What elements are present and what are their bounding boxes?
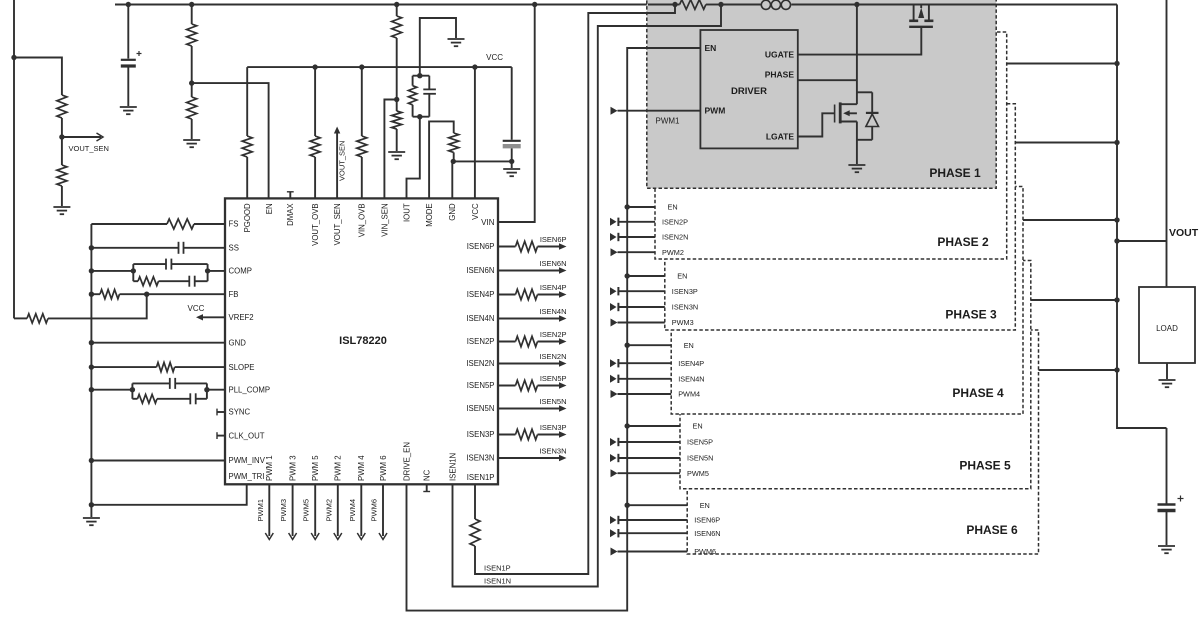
wire feedback resistor to left line [14, 317, 27, 319]
pin labels left side [229, 220, 271, 481]
wire EN tap phase 5 [625, 423, 630, 428]
svg-text:EN: EN [684, 341, 694, 350]
node PWM_INV on rail [89, 458, 94, 463]
wire PLL_COMP to network [91, 389, 132, 391]
node ISEN1P on bus [672, 2, 677, 7]
node phase4 output [1114, 217, 1119, 222]
svg-text:PWM3: PWM3 [279, 499, 288, 522]
wire EN bus DRIVE_EN [407, 48, 701, 611]
wire PWM2 output arrow [337, 484, 339, 536]
wire ISEN4P sense output [498, 294, 516, 296]
svg-text:PWM 5: PWM 5 [311, 455, 320, 481]
capacitor PLL top branch [131, 383, 133, 398]
wire PGOOD pull-up [246, 157, 248, 198]
ground phase1 power [848, 164, 865, 166]
node PWM_TRI on rail [89, 502, 94, 507]
svg-text:ISEN6P: ISEN6P [540, 235, 567, 244]
wire VOUT_SEN arrow [62, 136, 101, 138]
node IOUT RC top [417, 73, 422, 78]
wire VIN_OVB pull-up top [361, 67, 363, 136]
resistor EN divider top [187, 24, 197, 46]
node IOUT RC bottom [417, 114, 422, 119]
resistor VIN divider top [392, 16, 402, 38]
wire bus to VIN divider [396, 5, 398, 17]
wire EN tap phase 6 [625, 503, 630, 508]
resistor ISEN2P sense [516, 336, 538, 346]
node junction on feedback line [11, 55, 16, 60]
svg-text:SYNC: SYNC [229, 408, 251, 417]
node VCC pin on rail [472, 64, 477, 69]
svg-text:EN: EN [693, 422, 703, 431]
svg-text:PWM3: PWM3 [672, 318, 694, 327]
svg-text:COMP: COMP [229, 267, 252, 276]
pin labels top side [243, 203, 480, 246]
svg-text:DRIVER: DRIVER [731, 86, 767, 97]
wire feedback left vertical [13, 0, 15, 318]
capacitor SS [178, 242, 180, 254]
svg-text:PWM6: PWM6 [370, 499, 379, 522]
wire VOUT_OVB pull-up top [314, 67, 316, 136]
svg-text:VOUT_SEN: VOUT_SEN [333, 203, 342, 245]
wire EN to IC pin [192, 83, 269, 198]
svg-text:LOAD: LOAD [1156, 324, 1178, 333]
block PHASE 1 driver stage [647, 0, 996, 188]
diode D1 body diode [857, 92, 879, 140]
wire Q2 source to ground [856, 122, 858, 165]
resistor ISEN4P sense [516, 289, 538, 299]
svg-text:ISEN6N: ISEN6N [694, 529, 720, 538]
svg-text:EN: EN [265, 203, 274, 214]
wire MODE resistor bottom [453, 152, 455, 161]
wire FS pin [91, 223, 167, 225]
svg-text:CLK_OUT: CLK_OUT [229, 431, 265, 440]
wire ISEN2N sense output [498, 363, 560, 365]
wire ISEN5P sense output [498, 385, 516, 387]
svg-text:ISEN6N: ISEN6N [539, 259, 566, 268]
wire IOUT pin to RC network [407, 117, 420, 199]
resistor PGOOD pull-up [242, 136, 252, 157]
wire PWM_TRI pin [91, 484, 246, 505]
svg-text:PWM 1: PWM 1 [265, 455, 274, 481]
node EN divider tap on bus [189, 2, 194, 7]
ground left rail [83, 517, 100, 519]
wire PWM5 input [611, 469, 618, 477]
svg-text:PHASE 4: PHASE 4 [952, 386, 1004, 400]
svg-text:ISEN3N: ISEN3N [466, 454, 494, 463]
svg-text:PWM4: PWM4 [678, 390, 700, 399]
svg-text:PHASE 5: PHASE 5 [959, 459, 1011, 473]
svg-text:LGATE: LGATE [766, 132, 795, 142]
label PHASE 5 pins [687, 422, 713, 478]
node MODE resistor to gnd [451, 159, 456, 164]
wire VREF2 with arrow [196, 314, 203, 320]
wire ISEN3N sense output [498, 457, 560, 459]
wire divider middle [61, 118, 63, 165]
svg-text:SLOPE: SLOPE [229, 363, 255, 372]
pin stub CLK_OUT [217, 435, 225, 437]
svg-text:PHASE 1: PHASE 1 [929, 166, 981, 180]
wire PWM2 input [611, 248, 618, 256]
wire ISEN1N routing [453, 5, 722, 587]
node ground GND pin net [509, 159, 514, 164]
svg-text:SS: SS [229, 244, 239, 253]
ground EN divider [183, 139, 200, 141]
wire VCC rail to decoupling cap [511, 67, 513, 140]
wire switch node vertical [856, 5, 858, 105]
block PHASE 6 [687, 330, 1038, 554]
svg-text:ISEN3N: ISEN3N [672, 303, 698, 312]
svg-text:ISEN5N: ISEN5N [466, 404, 494, 413]
svg-text:ISEN3P: ISEN3P [540, 423, 567, 432]
wire ISEN6P sense output [498, 246, 516, 248]
wire IOUT RC bottom bar [413, 116, 430, 118]
label PHASE 6 pins [694, 501, 720, 556]
node phase5 output [1114, 297, 1119, 302]
node FB on rail [89, 292, 94, 297]
svg-text:ISEN3P: ISEN3P [467, 430, 495, 439]
wire PWM1 output arrow [268, 484, 270, 536]
wire EN divider to ground [191, 119, 193, 139]
capacitor COMP bottom branch [188, 276, 190, 287]
node SS on rail [89, 245, 94, 250]
svg-text:ISEN3P: ISEN3P [672, 287, 698, 296]
svg-text:PWM2: PWM2 [324, 499, 333, 522]
svg-text:VIN: VIN [481, 218, 495, 227]
node FB external divider tap [144, 292, 149, 297]
node COMP on rail [89, 268, 94, 273]
wire to input capacitor [127, 5, 129, 59]
node VOUT_SEN tap [59, 134, 64, 139]
wire PWM4 input [611, 390, 618, 398]
wire PHASE to switch node [798, 79, 857, 81]
label PHASE 4 pins [678, 341, 704, 399]
ground IOUT network [448, 38, 465, 40]
wire COMP to network [91, 270, 133, 272]
wire EN divider middle [191, 46, 193, 97]
wire VOUT_SEN external line [336, 129, 338, 198]
node phase3 output [1114, 140, 1119, 145]
svg-text:ISEN6P: ISEN6P [467, 242, 495, 251]
block PHASE 4 [671, 187, 1023, 415]
svg-text:ISL78220: ISL78220 [339, 335, 387, 347]
wire IOUT RC to ground [420, 18, 456, 76]
wire VIN_SEN to pin [384, 100, 396, 199]
svg-text:PWM4: PWM4 [348, 499, 357, 522]
wire ISEN1P routing [475, 13, 673, 574]
capacitor COMP top branch [132, 264, 134, 281]
svg-text:PGOOD: PGOOD [243, 203, 252, 232]
svg-text:PWM 2: PWM 2 [334, 455, 343, 481]
svg-text:ISEN3N: ISEN3N [539, 447, 566, 456]
svg-text:VCC: VCC [471, 203, 480, 220]
node VIN sense divider on bus [394, 2, 399, 7]
node VIN_OVB on VCC rail [359, 64, 364, 69]
svg-text:EN: EN [668, 203, 678, 212]
resistor VOUT_SEN divider top [57, 95, 67, 118]
svg-text:PWM5: PWM5 [687, 469, 709, 478]
wire to ground [61, 186, 63, 206]
wire GND pin vertical [451, 161, 453, 198]
svg-text:ISEN4N: ISEN4N [678, 374, 704, 383]
node PLL_COMP on rail [89, 387, 94, 392]
node VOUT_OVB on VCC rail [312, 64, 317, 69]
capacitor PLL bottom branch [189, 393, 191, 404]
node phase2 output [1114, 61, 1119, 66]
svg-text:IOUT: IOUT [402, 203, 411, 222]
svg-text:ISEN5P: ISEN5P [687, 438, 713, 447]
ground LOAD [1159, 379, 1176, 381]
svg-text:ISEN2P: ISEN2P [662, 217, 688, 226]
capacitor VCC decoupling [503, 140, 521, 142]
wire decap ground stub [511, 161, 513, 168]
wire ISEN5P input [610, 438, 617, 446]
wire SLOPE pin [91, 366, 156, 368]
wire FB to feedback resistor [48, 294, 147, 318]
svg-text:PWM6: PWM6 [694, 547, 716, 556]
svg-text:ISEN1P: ISEN1P [467, 473, 495, 482]
wire decap to ground node [511, 148, 513, 161]
svg-text:ISEN2P: ISEN2P [540, 330, 567, 339]
svg-text:DMAX: DMAX [286, 203, 295, 226]
wire ISEN4P input [610, 359, 617, 367]
wire ISEN5N sense output [498, 408, 560, 410]
svg-text:ISEN2N: ISEN2N [539, 352, 566, 361]
wire ISEN3N input [610, 303, 617, 311]
svg-text:ISEN1P: ISEN1P [484, 564, 511, 573]
svg-text:PWM1: PWM1 [256, 499, 265, 522]
resistor VIN divider bottom [392, 111, 402, 129]
inductor L1 [761, 0, 790, 9]
svg-text:PWM2: PWM2 [662, 248, 684, 257]
resistor VOUT_SEN divider bottom [57, 165, 67, 186]
wire VIN pin to bus [498, 5, 535, 223]
wire FB pin [91, 293, 100, 295]
svg-text:PLL_COMP: PLL_COMP [229, 385, 271, 394]
wire ISEN2P input [610, 218, 617, 226]
resistor FS [167, 219, 194, 229]
node SLOPE on rail [89, 364, 94, 369]
wire phase outputs to VOUT rail [996, 5, 1117, 371]
svg-text:NC: NC [423, 469, 432, 481]
block PHASE 3 [665, 104, 1016, 330]
node COMP network left [131, 268, 136, 273]
svg-text:PWM_TRI: PWM_TRI [229, 472, 265, 481]
resistor FB to rail [100, 290, 120, 299]
wire UGATE to Q1 gate [798, 27, 922, 55]
resistor COMP bottom branch [133, 280, 138, 282]
wire MODE pin to pulldown [429, 121, 454, 198]
wire ISEN6N sense output [498, 270, 560, 272]
wire GND pin left [91, 342, 225, 344]
ground VIN divider [388, 151, 405, 153]
ground input capacitor [120, 106, 137, 108]
svg-text:ISEN6P: ISEN6P [694, 516, 720, 525]
svg-text:ISEN5N: ISEN5N [539, 397, 566, 406]
svg-text:FS: FS [229, 220, 239, 229]
svg-text:ISEN6N: ISEN6N [466, 266, 494, 275]
wire PWM_INV pin [91, 460, 225, 462]
resistor EN divider bottom [187, 97, 197, 119]
svg-text:PHASE 6: PHASE 6 [966, 523, 1018, 537]
svg-text:PHASE 2: PHASE 2 [937, 235, 989, 249]
svg-text:DRIVE_EN: DRIVE_EN [402, 442, 411, 481]
ground VOUT_SEN divider [53, 206, 70, 208]
svg-text:ISEN1N: ISEN1N [448, 453, 457, 481]
svg-text:ISEN4P: ISEN4P [467, 290, 495, 299]
wire EN tap phase 4 [625, 343, 630, 348]
svg-text:VCC: VCC [486, 53, 503, 62]
svg-text:VOUT_OVB: VOUT_OVB [311, 203, 320, 245]
wire load to ground [1166, 363, 1168, 379]
svg-text:ISEN4N: ISEN4N [539, 307, 566, 316]
wire PWM3 output arrow [292, 484, 294, 536]
wire VOUT_OVB to pin [314, 157, 316, 198]
node ISEN1N on bus [718, 2, 723, 7]
pin stub NC [426, 484, 428, 491]
resistor feedback [27, 314, 48, 323]
node EN divider [189, 80, 194, 85]
wire ISEN6N input [610, 529, 617, 537]
IC U1 ISL78220 body [225, 198, 498, 484]
wire VIN top bus [115, 4, 648, 6]
wire ISEN2N input [610, 233, 617, 241]
resistor ISEN5P sense [516, 380, 538, 390]
svg-text:PWM 6: PWM 6 [379, 455, 388, 481]
capacitor IOUT network [428, 94, 430, 117]
node COMP network right [205, 268, 210, 273]
resistor SLOPE [157, 363, 175, 372]
wire PWM1 input [611, 107, 618, 115]
wire COMP network to pin [208, 270, 225, 272]
resistor ISEN3P sense [516, 429, 538, 439]
resistor IOUT network [412, 105, 414, 117]
resistor ISEN6P sense [516, 241, 538, 251]
svg-text:PWM: PWM [705, 106, 726, 116]
svg-text:UGATE: UGATE [765, 49, 794, 59]
wire ISEN3P sense output [498, 434, 516, 436]
block PHASE 2 [655, 32, 1007, 259]
svg-text:ISEN4P: ISEN4P [678, 359, 704, 368]
svg-text:ISEN2N: ISEN2N [662, 233, 688, 242]
svg-text:EN: EN [677, 272, 687, 281]
svg-text:VOUT_SEN: VOUT_SEN [338, 141, 347, 181]
label PHASE 3 pins [672, 272, 698, 328]
wire PGOOD resistor to VCC rail [246, 67, 248, 136]
svg-text:PHASE 3: PHASE 3 [945, 308, 997, 322]
node VIN_SEN tap [394, 97, 399, 102]
wire GND pin net horizontal [453, 160, 511, 162]
svg-text:PWM 4: PWM 4 [357, 455, 366, 481]
pin labels right side [466, 218, 494, 482]
label driver pins [705, 43, 795, 142]
wire ISEN3P input [610, 287, 617, 295]
svg-text:VREF2: VREF2 [229, 313, 254, 322]
resistor VOUT_OVB pull-up [310, 136, 320, 157]
block PHASE 5 [680, 261, 1031, 489]
wire PWM6 input [611, 548, 618, 556]
node PLL network left [130, 387, 135, 392]
wire ISEN4N sense output [498, 318, 560, 320]
wire SS pin [91, 247, 178, 249]
wire ISEN2P sense output [498, 341, 516, 343]
resistor current sense phase1 [680, 0, 706, 9]
wire PLL network to pin [207, 389, 225, 391]
block LOAD [1139, 287, 1195, 363]
wire IOUT RC top bar [413, 75, 430, 77]
transistor Q2 lower MOSFET [835, 102, 857, 123]
node VOUT tap [1114, 238, 1119, 243]
capacitor input electrolytic [121, 59, 136, 61]
svg-text:GND: GND [229, 338, 247, 347]
ground VCC decoupling [503, 168, 520, 170]
svg-text:VOUT: VOUT [1169, 227, 1199, 239]
wire PWM5 output arrow [314, 484, 316, 536]
wire EN tap phase 2 [625, 204, 630, 209]
wire ISEN1P with sense resistor [474, 484, 476, 519]
pin stub DMAX [289, 192, 291, 199]
wire VIN_OVB to pin [361, 157, 363, 198]
wire VIN bus through phase 1 [648, 4, 675, 6]
svg-text:VOUT_SEN: VOUT_SEN [69, 144, 109, 153]
wire bus to EN divider [191, 5, 193, 25]
node GND pin on rail [89, 340, 94, 345]
wire PWM4 output arrow [360, 484, 362, 536]
svg-text:ISEN4P: ISEN4P [540, 283, 567, 292]
wire PWM6 output arrow [382, 484, 384, 536]
svg-text:VIN_OVB: VIN_OVB [358, 203, 367, 237]
wire VIN divider middle [396, 38, 398, 111]
ground output capacitor [1158, 545, 1175, 547]
wire VIN divider to ground [396, 129, 398, 151]
svg-text:ISEN5P: ISEN5P [467, 381, 495, 390]
wire left ground rail [90, 224, 92, 517]
wire LGATE to Q2 gate [798, 113, 835, 136]
wire VCC pin [474, 67, 476, 198]
wire ISEN5N input [610, 454, 617, 462]
wire VOUT rail [1117, 5, 1167, 429]
wire output cap to ground [1166, 511, 1168, 546]
svg-text:ISEN1N: ISEN1N [484, 577, 511, 586]
pin stub SYNC [217, 411, 225, 413]
svg-text:PWM 3: PWM 3 [289, 455, 298, 481]
pin labels bottom side [265, 442, 457, 481]
node PLL network right [204, 387, 209, 392]
svg-text:ISEN2P: ISEN2P [467, 337, 495, 346]
node phase1 switch node [854, 2, 859, 7]
svg-text:VCC: VCC [188, 304, 205, 313]
svg-text:GND: GND [448, 203, 457, 221]
wire cap to ground [127, 66, 129, 106]
node VIN pin on bus [532, 2, 537, 7]
svg-text:ISEN5N: ISEN5N [687, 454, 713, 463]
wire VCC rail [247, 66, 512, 68]
block U2 DRIVER [700, 30, 797, 148]
wire to VOUT_SEN divider [14, 58, 62, 96]
svg-text:PWM5: PWM5 [302, 499, 311, 522]
capacitor output electrolytic [1166, 428, 1168, 504]
resistor VIN_OVB pull-up [357, 136, 367, 157]
wire EN tap phase 3 [625, 273, 630, 278]
wire ISEN6P input [610, 516, 617, 524]
svg-text:ISEN2N: ISEN2N [466, 359, 494, 368]
svg-text:VIN_SEN: VIN_SEN [380, 203, 389, 236]
transistor Q1 upper MOSFET [909, 5, 933, 27]
wire load feed from top [1166, 0, 1168, 287]
svg-text:MODE: MODE [425, 203, 434, 226]
svg-text:PWM1: PWM1 [656, 117, 681, 126]
svg-text:PHASE: PHASE [765, 70, 795, 80]
label PHASE 2 pins [662, 203, 688, 257]
